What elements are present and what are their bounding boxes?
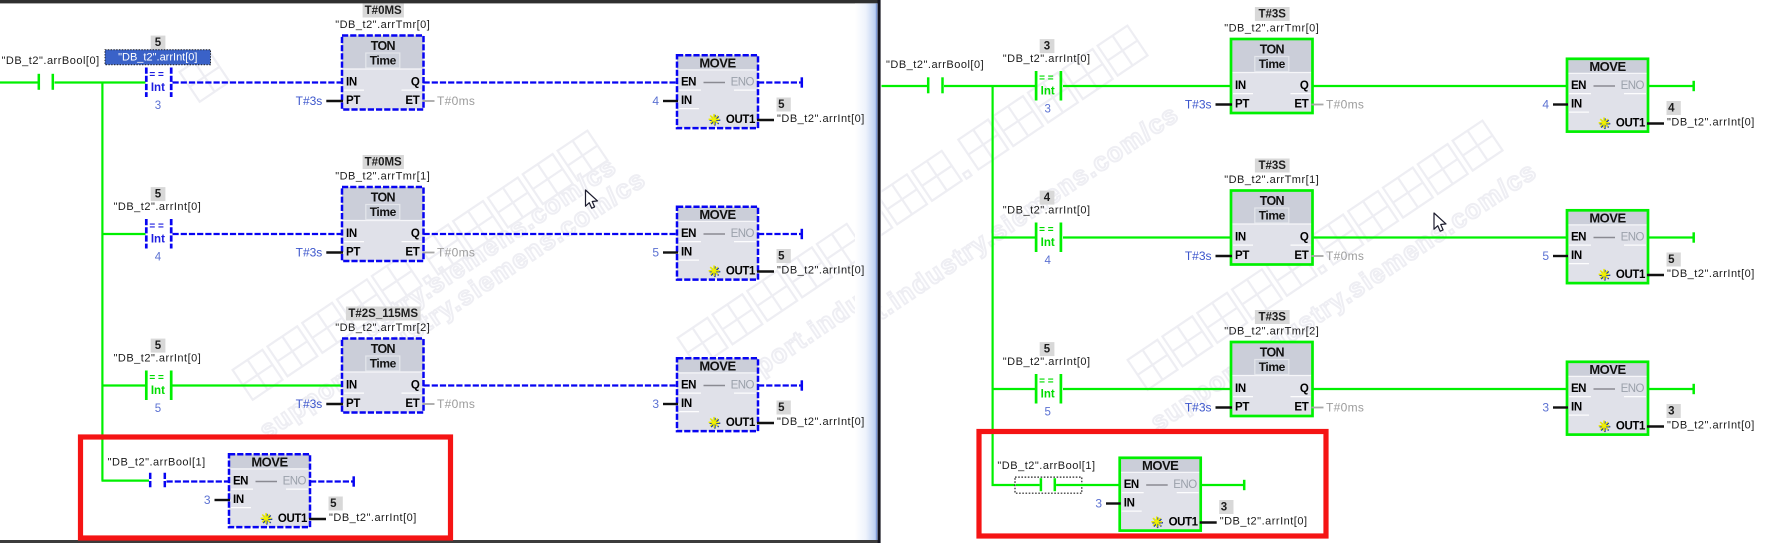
svg-text:IN: IN <box>681 95 692 107</box>
svg-text:= =: = = <box>1039 73 1054 84</box>
svg-text:ENO: ENO <box>1621 80 1645 92</box>
svg-text:TON: TON <box>1260 43 1285 57</box>
svg-text:Q: Q <box>411 77 420 89</box>
svg-text:IN: IN <box>346 380 357 392</box>
MOVE block left rung3 <box>677 358 758 373</box>
wire left rung1 contact to comparator <box>55 81 146 83</box>
svg-text:= =: = = <box>149 221 164 232</box>
svg-text:Q: Q <box>411 228 420 240</box>
MOVE right rung4 EN-ENO link <box>1146 484 1168 486</box>
svg-text:TON: TON <box>371 39 396 53</box>
svg-text:5: 5 <box>1542 249 1549 263</box>
contact "DB_t2".arrBool[1] (right) <box>1040 478 1043 491</box>
wire ET output stub <box>1312 104 1324 106</box>
wire PT input stub <box>326 251 343 253</box>
svg-text:"DB_t2".arrInt[0]: "DB_t2".arrInt[0] <box>113 201 201 213</box>
wire PT input stub <box>1216 255 1233 257</box>
wire right rung3 branch to comparator <box>992 388 1036 390</box>
svg-text:IN: IN <box>346 77 357 89</box>
svg-text:= =: = = <box>149 373 164 384</box>
wire right rung1 contact to comparator <box>944 85 1035 87</box>
svg-text:"DB_t2".arrInt[0]: "DB_t2".arrInt[0] <box>777 113 865 125</box>
svg-text:MOVE: MOVE <box>699 55 736 70</box>
open end tick right rung4 <box>1243 480 1246 490</box>
svg-text:ENO: ENO <box>731 228 755 240</box>
svg-text:"DB_t2".arrBool[1]: "DB_t2".arrBool[1] <box>997 460 1095 472</box>
svg-text:EN: EN <box>1571 80 1586 92</box>
left editor bottom dark bar <box>0 540 879 543</box>
contact "DB_t2".arrBool[0] (right) <box>927 77 930 93</box>
svg-text:3: 3 <box>1542 401 1549 415</box>
wire left rung3 TON Q to MOVE EN (dashed) <box>424 384 679 386</box>
wire right rung2 ENO out <box>1648 236 1693 238</box>
svg-text:IN: IN <box>1571 402 1582 414</box>
svg-text:IN: IN <box>681 247 692 259</box>
MOVE left rung2 OUT1 destination tag <box>777 249 791 263</box>
wire IN input stub <box>1106 502 1121 504</box>
TON timer block arrTmr[2] <box>342 339 424 373</box>
svg-text:Time: Time <box>370 357 397 371</box>
MOVE left rung4 pin OUT1 with modify star <box>262 518 273 520</box>
TON timer block arrTmr[2] <box>1231 342 1313 376</box>
wire left rung3 branch to comparator <box>102 384 146 386</box>
svg-text:"DB_t2".arrTmr[2]: "DB_t2".arrTmr[2] <box>1224 325 1319 337</box>
svg-text:Time: Time <box>1259 360 1286 374</box>
svg-text:MOVE: MOVE <box>699 358 736 373</box>
svg-text:5: 5 <box>330 498 337 510</box>
MOVE right rung1 pin OUT1 with modify star <box>1600 123 1611 125</box>
open end tick left rung1 <box>801 77 804 87</box>
TON timer block arrTmr[1] <box>342 187 424 221</box>
wire right rung2 branch to comparator <box>992 236 1036 238</box>
svg-text:PT: PT <box>346 398 360 410</box>
comparator ==Int right rung3 operand tag <box>1040 342 1055 356</box>
svg-text:PT: PT <box>1235 402 1249 414</box>
svg-text:T#0ms: T#0ms <box>437 246 475 260</box>
wire IN input stub <box>663 403 678 405</box>
svg-text:EN: EN <box>681 380 696 392</box>
MOVE left rung1 EN-ENO link <box>704 82 726 84</box>
MOVE left rung4 OUT1 destination tag <box>329 497 343 511</box>
svg-text:"DB_t2".arrInt[0]: "DB_t2".arrInt[0] <box>1003 53 1091 65</box>
svg-text:"DB_t2".arrInt[0]: "DB_t2".arrInt[0] <box>1220 516 1308 528</box>
watermark left extra url line <box>357 150 622 342</box>
wire left rung2 comparator to TON IN (dashed) <box>173 233 344 235</box>
svg-text:Int: Int <box>151 385 165 397</box>
wire ET output stub <box>423 252 435 254</box>
wire PT input stub <box>1216 103 1233 105</box>
svg-text:IN: IN <box>1124 498 1135 510</box>
svg-text:"DB_t2".arrInt[0]: "DB_t2".arrInt[0] <box>1003 356 1091 368</box>
svg-text:"DB_t2".arrInt[0]: "DB_t2".arrInt[0] <box>777 265 865 277</box>
svg-text:"DB_t2".arrInt[0]: "DB_t2".arrInt[0] <box>118 52 197 64</box>
svg-text:5: 5 <box>778 402 785 414</box>
open end tick left rung3 <box>801 380 804 390</box>
svg-text:T#3s: T#3s <box>296 397 323 411</box>
svg-text:MOVE: MOVE <box>1142 458 1179 473</box>
open end tick right rung1 <box>1692 81 1695 91</box>
contact placeholder box right rung4 <box>1015 477 1082 493</box>
svg-text:Time: Time <box>370 54 397 68</box>
svg-text:Int: Int <box>1041 237 1055 249</box>
svg-text:5: 5 <box>155 403 161 415</box>
svg-text:T#3S: T#3S <box>1258 160 1286 172</box>
wire right rung1 TON Q to MOVE EN <box>1313 85 1569 87</box>
comparator ==Int right rung2 operand tag <box>1040 191 1055 205</box>
comparator ==Int left rung2 operand tag <box>151 187 166 201</box>
svg-text:= =: = = <box>1039 225 1054 236</box>
svg-text:"DB_t2".arrInt[0]: "DB_t2".arrInt[0] <box>1667 117 1755 129</box>
TON timer arrTmr[0] preset tag <box>363 4 404 18</box>
svg-text:Q: Q <box>1300 80 1309 92</box>
contact "DB_t2".arrBool[1] (left, dashed selected) <box>149 473 152 489</box>
TON timer arrTmr[0] preset tag <box>1255 7 1290 21</box>
svg-text:T#3s: T#3s <box>1185 401 1212 415</box>
svg-text:OUT1: OUT1 <box>726 114 756 126</box>
svg-text:5: 5 <box>778 99 785 111</box>
svg-text:3: 3 <box>1221 501 1227 513</box>
MOVE right rung3 EN-ENO link <box>1594 388 1616 390</box>
wire IN input stub <box>1553 406 1568 408</box>
svg-text:Q: Q <box>411 380 420 392</box>
wire left rung4 contact to MOVE EN (dashed) <box>167 480 230 482</box>
MOVE block left rung2 <box>677 207 758 222</box>
wire right rung2 comparator to TON IN <box>1063 236 1232 238</box>
svg-text:"DB_t2".arrInt[0]: "DB_t2".arrInt[0] <box>1003 205 1091 217</box>
MOVE left rung4 EN-ENO link <box>256 481 278 483</box>
wire PT input stub <box>326 403 343 405</box>
watermark right block 1 <box>773 26 1185 380</box>
svg-text:Int: Int <box>151 82 165 94</box>
svg-text:IN: IN <box>1571 99 1582 111</box>
svg-text:MOVE: MOVE <box>251 454 288 469</box>
wire left rung1 comparator to TON IN (dashed selected) <box>173 81 344 83</box>
comparator ==Int right rung1 operand tag <box>1040 39 1055 53</box>
svg-text:"DB_t2".arrTmr[2]: "DB_t2".arrTmr[2] <box>335 322 430 334</box>
TON timer block arrTmr[0] <box>1231 39 1313 73</box>
wire ET output stub <box>1312 255 1324 257</box>
svg-text:3: 3 <box>652 397 659 411</box>
svg-text:"DB_t2".arrInt[0]: "DB_t2".arrInt[0] <box>777 416 865 428</box>
svg-text:Q: Q <box>1300 383 1309 395</box>
svg-text:ENO: ENO <box>1621 232 1645 244</box>
open end tick right rung2 <box>1692 232 1695 242</box>
watermark left block lower-right <box>678 99 1105 409</box>
svg-text:"DB_t2".arrInt[0]: "DB_t2".arrInt[0] <box>329 512 417 524</box>
svg-text:4: 4 <box>155 252 162 264</box>
svg-text:IN: IN <box>1235 80 1246 92</box>
left editor top dark bar <box>0 0 879 3</box>
TON timer arrTmr[2] preset tag <box>346 307 421 321</box>
svg-text:EN: EN <box>681 77 696 89</box>
svg-text:Int: Int <box>1041 389 1055 401</box>
svg-text:T#3s: T#3s <box>296 246 323 260</box>
svg-text:= =: = = <box>1039 376 1054 387</box>
svg-text:ET: ET <box>405 95 419 107</box>
svg-text:ET: ET <box>1294 99 1308 111</box>
svg-text:4: 4 <box>1044 192 1051 204</box>
svg-text:IN: IN <box>1235 232 1246 244</box>
svg-text:5: 5 <box>1668 254 1675 266</box>
svg-text:5: 5 <box>1044 343 1051 355</box>
wire OUT1 output stub <box>757 270 774 272</box>
svg-text:Time: Time <box>1259 209 1286 223</box>
comparator ==Int right rung1 (energized) <box>1035 71 1038 101</box>
svg-text:Int: Int <box>1041 86 1055 98</box>
svg-text:ENO: ENO <box>731 77 755 89</box>
svg-text:OUT1: OUT1 <box>1616 421 1646 433</box>
wire right rung4 into placeholder <box>1016 484 1040 486</box>
svg-text:TON: TON <box>371 191 396 205</box>
wire IN input stub <box>663 100 678 102</box>
wire IN input stub <box>663 251 678 253</box>
node branch point right <box>991 86 993 485</box>
svg-text:4: 4 <box>652 94 659 108</box>
MOVE left rung3 OUT1 destination tag <box>777 401 791 415</box>
svg-text:3: 3 <box>1044 40 1050 52</box>
MOVE right rung2 pin OUT1 with modify star <box>1600 274 1611 276</box>
MOVE block left rung4 <box>229 454 310 469</box>
wire left rung1 ENO out (dashed) <box>758 81 801 83</box>
wire left rung2 ENO out (dashed) <box>758 233 801 235</box>
svg-text:ET: ET <box>405 247 419 259</box>
comparator ==Int left rung1 operand tag <box>151 36 166 50</box>
svg-text:OUT1: OUT1 <box>1616 269 1646 281</box>
svg-text:5: 5 <box>1044 407 1050 419</box>
svg-text:T#3s: T#3s <box>1185 98 1212 112</box>
MOVE left rung3 pin OUT1 with modify star <box>710 422 721 424</box>
svg-text:"DB_t2".arrBool[0]: "DB_t2".arrBool[0] <box>886 59 984 71</box>
svg-text:PT: PT <box>1235 250 1249 262</box>
svg-text:"DB_t2".arrInt[0]: "DB_t2".arrInt[0] <box>1667 268 1755 280</box>
svg-text:3: 3 <box>1044 104 1050 116</box>
svg-text:T#3S: T#3S <box>1258 311 1286 323</box>
MOVE right rung1 OUT1 destination tag <box>1667 101 1681 115</box>
TON timer block arrTmr[1] <box>1231 191 1313 225</box>
comparator ==Int left rung1 <box>145 68 148 98</box>
wire PT input stub <box>326 100 343 102</box>
comparator ==Int left rung3 (energized green) <box>145 371 148 401</box>
MOVE left rung1 OUT1 destination tag <box>777 98 791 112</box>
svg-text:OUT1: OUT1 <box>278 513 308 525</box>
wire right rung4 ENO out <box>1201 484 1243 486</box>
svg-text:T#0MS: T#0MS <box>365 156 402 168</box>
svg-text:3: 3 <box>155 100 161 112</box>
red annotation rectangle left <box>81 437 451 538</box>
comparator ==Int left rung2 <box>145 219 148 249</box>
svg-text:EN: EN <box>1571 383 1586 395</box>
wire OUT1 output stub <box>757 422 774 424</box>
contact "DB_t2".arrBool[0] (left) <box>38 74 41 90</box>
svg-text:"DB_t2".arrBool[0]: "DB_t2".arrBool[0] <box>2 55 100 67</box>
svg-text:Time: Time <box>1259 57 1286 71</box>
svg-text:OUT1: OUT1 <box>726 266 756 278</box>
svg-text:4: 4 <box>1668 102 1675 114</box>
svg-text:3: 3 <box>1668 405 1674 417</box>
TON timer arrTmr[1] preset tag <box>363 155 404 169</box>
svg-text:T#3S: T#3S <box>1258 8 1286 20</box>
svg-text:3: 3 <box>1095 497 1102 511</box>
wire OUT1 output stub <box>1647 122 1664 124</box>
MOVE right rung4 OUT1 destination tag <box>1219 500 1233 514</box>
wire OUT1 output stub <box>1647 425 1664 427</box>
wire OUT1 output stub <box>1200 521 1217 523</box>
svg-text:4: 4 <box>1044 255 1051 267</box>
MOVE block right rung1 <box>1567 59 1648 74</box>
svg-text:EN: EN <box>681 228 696 240</box>
svg-text:"DB_t2".arrInt[0]: "DB_t2".arrInt[0] <box>1667 420 1755 432</box>
wire OUT1 output stub <box>309 518 326 520</box>
svg-text:T#3s: T#3s <box>1185 249 1212 263</box>
wire right rung1 rail to contact <box>882 85 928 87</box>
watermark left block upper <box>180 52 230 102</box>
mouse cursor left <box>586 190 598 208</box>
svg-text:OUT1: OUT1 <box>1169 517 1199 529</box>
wire OUT1 output stub <box>757 119 774 121</box>
node branch point left <box>101 83 103 481</box>
svg-text:IN: IN <box>681 398 692 410</box>
svg-text:PT: PT <box>346 95 360 107</box>
MOVE left rung3 EN-ENO link <box>704 385 726 387</box>
comparator ==Int left rung1 operand label (selected) <box>105 50 211 65</box>
svg-text:ENO: ENO <box>1173 479 1197 491</box>
MOVE right rung4 pin OUT1 with modify star <box>1152 522 1163 524</box>
svg-text:T#0ms: T#0ms <box>437 397 475 411</box>
svg-text:5: 5 <box>778 250 785 262</box>
svg-text:ENO: ENO <box>283 476 307 488</box>
svg-text:PT: PT <box>1235 99 1249 111</box>
svg-text:TON: TON <box>1260 194 1285 208</box>
MOVE block right rung4 <box>1120 458 1201 473</box>
svg-text:ENO: ENO <box>1621 383 1645 395</box>
svg-text:"DB_t2".arrBool[1]: "DB_t2".arrBool[1] <box>108 456 206 468</box>
MOVE left rung2 EN-ENO link <box>704 233 726 235</box>
svg-text:Int: Int <box>151 234 165 246</box>
svg-text:5: 5 <box>652 246 659 260</box>
comparator ==Int right rung3 <box>1035 374 1038 404</box>
MOVE left rung1 pin OUT1 with modify star <box>710 119 721 121</box>
TON timer arrTmr[1] preset tag <box>1255 159 1290 173</box>
svg-text:IN: IN <box>233 494 244 506</box>
open end tick left rung2 <box>801 229 804 239</box>
comparator ==Int right rung2 <box>1035 223 1038 253</box>
svg-text:MOVE: MOVE <box>699 207 736 222</box>
watermark left block main <box>233 131 652 445</box>
svg-text:5: 5 <box>155 37 162 49</box>
MOVE right rung3 pin OUT1 with modify star <box>1600 426 1611 428</box>
window separator line <box>878 0 881 543</box>
svg-text:ET: ET <box>1294 250 1308 262</box>
svg-text:MOVE: MOVE <box>1589 59 1626 74</box>
wire left rung4 ENO out (dashed) <box>310 480 353 482</box>
svg-text:Q: Q <box>1300 232 1309 244</box>
wire OUT1 output stub <box>1647 274 1664 276</box>
svg-text:EN: EN <box>1571 232 1586 244</box>
watermark right block 2 <box>1128 121 1543 437</box>
wire left rung4 branch elbow <box>102 480 150 482</box>
svg-text:Time: Time <box>370 205 397 219</box>
wire ET output stub <box>423 100 435 102</box>
wire right rung1 comparator to TON IN <box>1063 85 1232 87</box>
wire left rung1 rail to contact <box>0 81 38 83</box>
svg-text:T#3s: T#3s <box>296 94 323 108</box>
MOVE left rung2 pin OUT1 with modify star <box>710 271 721 273</box>
svg-text:EN: EN <box>233 476 248 488</box>
svg-text:"DB_t2".arrTmr[0]: "DB_t2".arrTmr[0] <box>335 19 430 31</box>
svg-text:"DB_t2".arrTmr[1]: "DB_t2".arrTmr[1] <box>1224 174 1319 186</box>
svg-text:OUT1: OUT1 <box>726 417 756 429</box>
wire right rung3 comparator to TON IN <box>1063 388 1232 390</box>
svg-text:ET: ET <box>405 398 419 410</box>
comparator ==Int left rung3 operand tag <box>151 339 166 353</box>
TON timer arrTmr[2] preset tag <box>1255 310 1290 324</box>
wire left rung3 ENO out (dashed) <box>758 384 801 386</box>
svg-text:MOVE: MOVE <box>1589 210 1626 225</box>
MOVE right rung3 OUT1 destination tag <box>1667 404 1681 418</box>
svg-text:5: 5 <box>155 188 162 200</box>
svg-text:3: 3 <box>204 493 211 507</box>
svg-text:"DB_t2".arrTmr[1]: "DB_t2".arrTmr[1] <box>335 170 430 182</box>
MOVE right rung2 OUT1 destination tag <box>1667 253 1681 267</box>
MOVE block right rung2 <box>1567 210 1648 225</box>
mouse cursor right <box>1434 213 1446 231</box>
MOVE right rung1 EN-ENO link <box>1594 85 1616 87</box>
svg-text:EN: EN <box>1124 479 1139 491</box>
wire ET output stub <box>1312 407 1324 409</box>
wire left rung3 comparator to TON IN (green) <box>173 384 344 386</box>
MOVE right rung2 EN-ENO link <box>1594 237 1616 239</box>
svg-text:OUT1: OUT1 <box>1616 118 1646 130</box>
TON timer block arrTmr[0] <box>342 36 424 70</box>
wire IN input stub <box>1553 255 1568 257</box>
svg-text:ENO: ENO <box>731 380 755 392</box>
left editor scrollbar gradient <box>855 3 877 540</box>
svg-text:T#0ms: T#0ms <box>1326 249 1364 263</box>
svg-text:5: 5 <box>155 340 162 352</box>
svg-text:T#0MS: T#0MS <box>365 5 402 17</box>
svg-text:IN: IN <box>346 228 357 240</box>
wire left rung2 branch to comparator <box>102 233 146 235</box>
wire right rung3 ENO out <box>1648 388 1693 390</box>
svg-text:"DB_t2".arrInt[0]: "DB_t2".arrInt[0] <box>113 353 201 365</box>
svg-text:4: 4 <box>1542 98 1549 112</box>
svg-text:T#2S_115MS: T#2S_115MS <box>348 308 418 320</box>
wire right rung3 TON Q to MOVE EN <box>1313 388 1569 390</box>
open end tick right rung3 <box>1692 384 1695 394</box>
svg-text:"DB_t2".arrTmr[0]: "DB_t2".arrTmr[0] <box>1224 22 1319 34</box>
MOVE block left rung1 <box>677 55 758 70</box>
wire right rung4 branch elbow <box>992 484 1016 486</box>
svg-text:T#0ms: T#0ms <box>1326 401 1364 415</box>
wire left rung1 TON Q to MOVE EN (dashed) <box>424 81 679 83</box>
red annotation rectangle right <box>979 432 1326 537</box>
svg-text:= =: = = <box>149 70 164 81</box>
wire right rung4 placeholder to MOVE EN <box>1056 484 1120 486</box>
wire ET output stub <box>423 403 435 405</box>
wire left rung2 TON Q to MOVE EN (dashed) <box>424 233 679 235</box>
svg-text:T#0ms: T#0ms <box>437 94 475 108</box>
svg-text:PT: PT <box>346 247 360 259</box>
svg-text:IN: IN <box>1235 383 1246 395</box>
MOVE block right rung3 <box>1567 362 1648 377</box>
wire IN input stub <box>215 499 231 501</box>
svg-text:T#0ms: T#0ms <box>1326 98 1364 112</box>
wire right rung2 TON Q to MOVE EN <box>1313 236 1569 238</box>
wire PT input stub <box>1216 406 1233 408</box>
wire right rung1 ENO out <box>1648 85 1693 87</box>
svg-text:IN: IN <box>1571 250 1582 262</box>
svg-text:TON: TON <box>371 342 396 356</box>
